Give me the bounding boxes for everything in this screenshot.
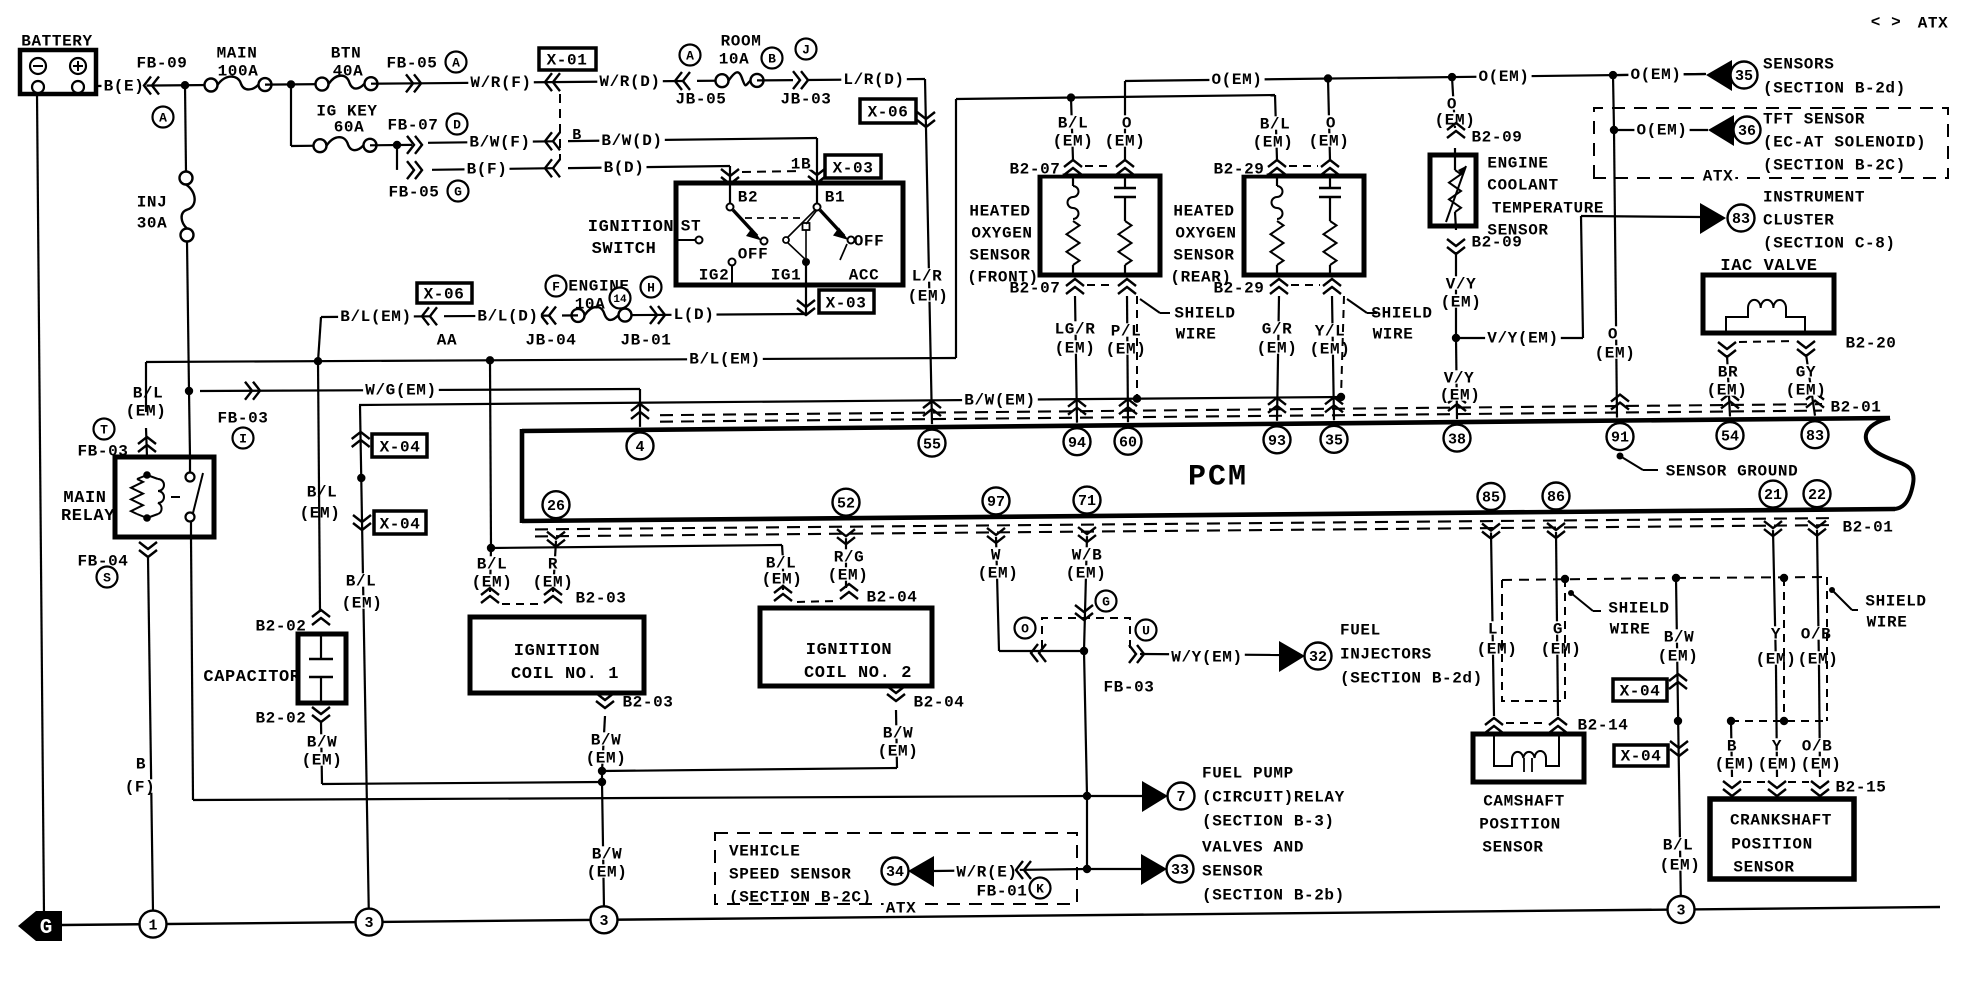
- svg-text:B/L: B/L: [307, 484, 338, 502]
- svg-text:86: 86: [1547, 489, 1565, 506]
- svg-text:ATX: ATX: [1918, 15, 1949, 33]
- ground bus wire: [62, 907, 1940, 925]
- heated oxygen sensor front box: [1040, 176, 1160, 275]
- svg-text:B/W: B/W: [591, 732, 622, 750]
- wire B/L(EM) down to B/L row: [318, 317, 321, 361]
- svg-text:X-03: X-03: [826, 295, 867, 313]
- svg-text:(SECTION B-2d): (SECTION B-2d): [1340, 670, 1483, 688]
- connector B2-07 upper: [1064, 168, 1082, 175]
- svg-text:RELAY: RELAY: [61, 507, 115, 526]
- svg-text:B2-04: B2-04: [866, 589, 917, 607]
- wire R from pin 26: [553, 541, 556, 592]
- wire B drop: [1731, 721, 1732, 777]
- svg-text:HEATED: HEATED: [1173, 203, 1234, 221]
- capacitor plates: [320, 634, 322, 659]
- PCM top dashed shield bus: [660, 411, 1822, 422]
- svg-text:B2-29: B2-29: [1213, 161, 1264, 179]
- connector X-04 upper: [352, 440, 370, 447]
- connector X-03 lower chevron: [797, 300, 815, 307]
- svg-text:54: 54: [1721, 429, 1739, 446]
- node O bus to sensors: [1609, 71, 1617, 79]
- wire IG1 down out of switch: [805, 262, 807, 314]
- wire V/Y down to pin 38: [1456, 338, 1457, 419]
- svg-text:B/L: B/L: [477, 556, 508, 574]
- wire to IG KEY fuse: [291, 145, 320, 148]
- wire coil2 B/L stub down: [782, 545, 783, 560]
- svg-text:4: 4: [635, 439, 644, 456]
- svg-text:40A: 40A: [333, 63, 364, 81]
- ignition switch box: [676, 183, 903, 285]
- svg-text:FUEL: FUEL: [1340, 622, 1381, 640]
- svg-text:(EM): (EM): [1257, 340, 1298, 358]
- svg-text:U: U: [1142, 624, 1150, 639]
- svg-text:SPEED SENSOR: SPEED SENSOR: [729, 866, 851, 884]
- svg-text:SENSOR: SENSOR: [1202, 863, 1263, 881]
- svg-text:IG1: IG1: [771, 267, 802, 285]
- connector JB-03 chevron: [793, 71, 800, 89]
- PCM pin 94: [1068, 408, 1086, 415]
- PCM pin 26: [543, 491, 570, 518]
- PCM pin 4: [631, 412, 649, 419]
- svg-text:CRANKSHAFT: CRANKSHAFT: [1730, 812, 1832, 830]
- sensor ground pointer: [1617, 453, 1624, 460]
- svg-text:3: 3: [364, 915, 373, 932]
- wire rear O drop: [1328, 79, 1330, 161]
- svg-text:SENSOR: SENSOR: [1482, 839, 1543, 857]
- svg-text:B(F): B(F): [467, 161, 508, 179]
- PCM top bus: [522, 418, 1890, 431]
- svg-text:FB-01: FB-01: [976, 883, 1027, 901]
- svg-text:B2: B2: [738, 189, 758, 207]
- connector B2-07 lower: [1066, 287, 1084, 294]
- svg-text:OXYGEN: OXYGEN: [1175, 225, 1236, 243]
- wire B/L riser to O2 feed line: [955, 99, 957, 358]
- node valves junction: [1083, 865, 1091, 873]
- svg-text:O: O: [1021, 622, 1029, 637]
- crankshaft shield pointer: [1829, 587, 1835, 593]
- svg-text:INSTRUMENT: INSTRUMENT: [1763, 189, 1865, 207]
- ignition switch terminal ST: [676, 239, 695, 241]
- svg-text:OFF: OFF: [854, 233, 885, 251]
- connector G chevron on W/B: [1075, 605, 1093, 612]
- connector B2-09 upper: [1447, 131, 1465, 138]
- label B(E): [102, 78, 147, 91]
- node A junction: [181, 81, 189, 89]
- svg-text:(EM): (EM): [1055, 340, 1096, 358]
- wire capacitor B/W down then right: [321, 722, 322, 784]
- svg-text:POSITION: POSITION: [1731, 836, 1813, 854]
- vehicle speed sensor dashed box: [715, 833, 1077, 904]
- svg-text:FB-03: FB-03: [1103, 679, 1154, 697]
- fuel injector dashed bracket: [1042, 618, 1130, 648]
- wire to BTN fuse: [265, 83, 322, 86]
- PCM pin 60: [1119, 407, 1137, 414]
- connector X-06 on L/R: [860, 99, 916, 123]
- wire O down to TFT row: [1613, 75, 1614, 130]
- connector B2-20: [1718, 342, 1736, 349]
- svg-text:60: 60: [1119, 434, 1137, 451]
- svg-text:26: 26: [547, 498, 565, 515]
- wire engine fuse to JB-04: [562, 314, 578, 316]
- svg-text:B/W: B/W: [307, 734, 338, 752]
- connector B2-03 upper: [481, 596, 499, 603]
- svg-text:G/R: G/R: [1262, 321, 1293, 339]
- svg-text:G: G: [1553, 621, 1563, 639]
- svg-text:O(EM): O(EM): [1211, 71, 1262, 89]
- svg-text:(REAR): (REAR): [1170, 269, 1231, 287]
- svg-text:83: 83: [1732, 211, 1750, 228]
- wire corner down to PCM pin 4: [639, 389, 641, 427]
- svg-text:POSITION: POSITION: [1479, 816, 1561, 834]
- svg-text:(EM): (EM): [878, 743, 919, 761]
- arrow fuel injectors 32: [1279, 641, 1305, 672]
- svg-text:L(D): L(D): [674, 306, 715, 324]
- svg-text:FB-07: FB-07: [387, 117, 438, 135]
- wire O(EM) to sensors arrow: [1613, 74, 1706, 75]
- connector B2-03 lower: [596, 693, 614, 700]
- svg-text:(EC-AT SOLENOID): (EC-AT SOLENOID): [1763, 134, 1926, 152]
- wire P/L to pin 60: [1127, 296, 1128, 422]
- svg-text:(EM): (EM): [1758, 756, 1799, 774]
- PCM pin 52: [833, 489, 860, 516]
- connector FB-03 T chevron: [94, 419, 115, 440]
- PCM bottom bus: [522, 509, 1895, 521]
- ignition switch contact arm B2-OFF: [733, 210, 757, 236]
- ignition coil no.1 box: [470, 617, 644, 693]
- svg-text:FB-09: FB-09: [136, 55, 187, 73]
- svg-text:(EM): (EM): [1253, 134, 1294, 152]
- wire coil1 B/W down: [602, 716, 605, 771]
- svg-text:B2-03: B2-03: [575, 590, 626, 608]
- svg-text:D: D: [453, 118, 461, 133]
- wire B/L feed line: [956, 95, 1275, 99]
- connector B2-09 lower: [1447, 239, 1465, 246]
- svg-text:ENGINE: ENGINE: [1487, 155, 1548, 173]
- svg-text:JB-03: JB-03: [780, 91, 831, 109]
- svg-text:W/R(E): W/R(E): [956, 864, 1017, 882]
- svg-text:OXYGEN: OXYGEN: [971, 225, 1032, 243]
- svg-text:BR: BR: [1718, 364, 1738, 382]
- fuse ROOM 10A: [697, 80, 722, 82]
- wire W/G(EM) row to pin4 corner: [200, 389, 640, 391]
- svg-text:IGNITION: IGNITION: [514, 642, 600, 661]
- svg-text:10A: 10A: [719, 51, 750, 69]
- node rear O tap: [1324, 74, 1332, 82]
- svg-text:B: B: [768, 52, 776, 67]
- svg-text:94: 94: [1068, 435, 1086, 452]
- wire O bus stub down to B/L feed line: [1124, 81, 1126, 97]
- wire B/W shield drain down: [1676, 578, 1681, 909]
- svg-text:MAIN: MAIN: [63, 489, 106, 508]
- svg-text:ATX: ATX: [886, 900, 917, 918]
- PCM pin 71: [1074, 487, 1101, 514]
- svg-text:O/B: O/B: [1802, 738, 1833, 756]
- camshaft shield dashed box: [1502, 598, 1561, 701]
- svg-text:32: 32: [1309, 649, 1327, 666]
- svg-text:WIRE: WIRE: [1867, 614, 1908, 632]
- svg-text:W/R(F): W/R(F): [470, 74, 531, 92]
- svg-text:A: A: [159, 111, 167, 126]
- camshaft pickup coil: [1494, 734, 1559, 766]
- wire V/Y down to junction: [1455, 252, 1457, 338]
- wire capacitor column from B/L node: [318, 361, 320, 612]
- PCM pin 97: [983, 487, 1010, 514]
- ground node 3 (coil B/W): [591, 906, 618, 933]
- svg-text:(EM): (EM): [978, 565, 1019, 583]
- svg-text:PCM: PCM: [1188, 460, 1248, 494]
- wire BR to pin 54: [1727, 355, 1730, 417]
- svg-text:X-03: X-03: [833, 160, 874, 178]
- svg-text:B/W(F): B/W(F): [469, 133, 530, 151]
- wire junction down to IG KEY row: [290, 84, 292, 146]
- label W/R(D): [597, 74, 663, 87]
- svg-text:R/G: R/G: [834, 549, 865, 567]
- svg-text:(EM): (EM): [908, 288, 949, 306]
- svg-text:SENSOR GROUND: SENSOR GROUND: [1666, 463, 1799, 481]
- node W/B junction: [1080, 647, 1088, 655]
- svg-text:O(EM): O(EM): [1478, 68, 1529, 86]
- wire GY to pin 83: [1806, 354, 1815, 416]
- PCM pin 85: [1478, 483, 1505, 510]
- connector FB-05 G chevron: [407, 161, 414, 179]
- svg-text:VEHICLE: VEHICLE: [729, 843, 800, 861]
- svg-text:B/W(D): B/W(D): [601, 132, 662, 150]
- svg-text:B/L: B/L: [1260, 116, 1291, 134]
- svg-text:(EM): (EM): [1441, 294, 1482, 312]
- PCM pin 21: [1760, 481, 1787, 508]
- svg-text:(CIRCUIT)RELAY: (CIRCUIT)RELAY: [1202, 789, 1345, 807]
- svg-text:JB-05: JB-05: [675, 91, 726, 109]
- svg-text:(EM): (EM): [1798, 651, 1839, 669]
- wire O(EM) to TFT arrow: [1614, 129, 1708, 131]
- wire rear B/L corner drop: [1275, 95, 1277, 160]
- svg-text:(EM): (EM): [1707, 382, 1748, 400]
- wire W/R(F) to X-01 to W/R(D): [420, 81, 683, 83]
- connector X-01 B chevron: [553, 159, 560, 177]
- main relay switch: [189, 457, 191, 473]
- svg-text:(EM): (EM): [828, 567, 869, 585]
- svg-text:X-06: X-06: [424, 286, 465, 304]
- svg-text:14: 14: [613, 294, 627, 306]
- PCM pin 86: [1543, 483, 1570, 510]
- svg-text:B2-15: B2-15: [1835, 779, 1886, 797]
- svg-text:10A: 10A: [575, 296, 606, 314]
- wire O/B from pin 22: [1817, 530, 1819, 668]
- svg-text:B2-20: B2-20: [1845, 335, 1896, 353]
- svg-text:SENSOR: SENSOR: [1173, 247, 1234, 265]
- svg-text:INJECTORS: INJECTORS: [1340, 646, 1432, 664]
- PCM pin 93: [1268, 406, 1286, 413]
- connector X-01: [539, 48, 596, 70]
- svg-text:L: L: [1488, 621, 1498, 639]
- wire INJ fuse down to W/G node: [187, 241, 189, 391]
- svg-text:T: T: [100, 423, 108, 438]
- ground symbol G: [18, 911, 62, 941]
- fuse INJ 30A: [180, 172, 193, 185]
- svg-text:Y: Y: [1771, 626, 1781, 644]
- svg-text:J: J: [802, 43, 810, 58]
- battery B: [20, 33, 96, 95]
- svg-text:COOLANT: COOLANT: [1487, 177, 1558, 195]
- wire BTN fuse to FB-05: [371, 82, 420, 85]
- svg-text:(EM): (EM): [1715, 756, 1756, 774]
- node coil B/W junction: [598, 767, 606, 775]
- svg-text:100A: 100A: [218, 63, 259, 81]
- svg-text:(EM): (EM): [1066, 565, 1107, 583]
- arrow sensors 35: [1706, 60, 1732, 91]
- svg-text:(EM): (EM): [342, 595, 383, 613]
- ECT thermistor: [1454, 148, 1456, 170]
- svg-text:B/L(EM): B/L(EM): [340, 308, 411, 326]
- svg-text:V/Y: V/Y: [1444, 370, 1475, 388]
- wire down to valves node: [1086, 796, 1088, 869]
- svg-text:JB-01: JB-01: [620, 332, 671, 350]
- svg-text:B2-09: B2-09: [1471, 129, 1522, 147]
- svg-text:Y: Y: [1772, 738, 1782, 756]
- svg-text:V/Y: V/Y: [1446, 276, 1477, 294]
- svg-text:85: 85: [1482, 490, 1500, 507]
- svg-text:(FRONT): (FRONT): [967, 269, 1038, 287]
- wire coil B/L feed row: [491, 545, 782, 548]
- connector X-04 lower right: [1670, 741, 1688, 748]
- svg-text:B2-01: B2-01: [1830, 399, 1881, 417]
- svg-text:S: S: [103, 571, 111, 586]
- svg-text:35: 35: [1325, 433, 1343, 450]
- svg-text:X-04: X-04: [1621, 748, 1662, 766]
- svg-text:B/W: B/W: [592, 846, 623, 864]
- wire ROOM fuse to JB-03: [757, 79, 793, 82]
- PCM right S-curve: [1866, 418, 1914, 509]
- svg-text:FUEL PUMP: FUEL PUMP: [1202, 765, 1294, 783]
- svg-text:BTN: BTN: [331, 45, 362, 63]
- svg-text:B/L: B/L: [346, 573, 377, 591]
- crankshaft position sensor box: [1710, 799, 1854, 879]
- connector FB-07 D chevron: [407, 136, 414, 154]
- connector B2-02 lower: [312, 707, 330, 714]
- svg-text:SHIELD: SHIELD: [1371, 305, 1432, 323]
- svg-text:1: 1: [148, 917, 157, 934]
- crank lower labels: [1713, 756, 1758, 769]
- svg-text:FB-03: FB-03: [217, 410, 268, 428]
- svg-text:AA: AA: [437, 332, 457, 350]
- PCM pin 22: [1804, 480, 1831, 507]
- svg-text:B(D): B(D): [604, 159, 645, 177]
- svg-text:X-01: X-01: [547, 52, 588, 70]
- svg-text:CLUSTER: CLUSTER: [1763, 212, 1834, 230]
- node O bus ECT tap: [1448, 73, 1456, 81]
- svg-text:A: A: [686, 49, 694, 64]
- svg-text:(EM): (EM): [1786, 382, 1827, 400]
- svg-text:(EM): (EM): [1595, 345, 1636, 363]
- svg-text:(EM): (EM): [1105, 133, 1146, 151]
- node X-04 column: [357, 474, 365, 482]
- svg-text:I: I: [239, 432, 247, 447]
- svg-text:COIL NO. 2: COIL NO. 2: [804, 664, 912, 683]
- svg-text:1B: 1B: [791, 156, 811, 174]
- wire B/L(EM) main row: [146, 358, 956, 362]
- svg-text:IGNITION: IGNITION: [806, 641, 892, 660]
- svg-text:WIRE: WIRE: [1373, 326, 1414, 344]
- wire O(EM) bus: [1125, 74, 1705, 81]
- ignition switch terminal IG1: [802, 258, 810, 266]
- connector X-06 box upper-left: [417, 283, 472, 303]
- svg-text:IG2: IG2: [699, 267, 730, 285]
- svg-text:G: G: [454, 185, 462, 200]
- node TFT tap: [1610, 126, 1618, 134]
- svg-text:(EM): (EM): [586, 750, 627, 768]
- connector B2-29 upper: [1268, 168, 1286, 175]
- svg-text:F: F: [552, 280, 560, 295]
- svg-text:60A: 60A: [334, 119, 365, 137]
- svg-text:WIRE: WIRE: [1610, 621, 1651, 639]
- svg-text:SENSOR: SENSOR: [1733, 859, 1794, 877]
- svg-text:FB-05: FB-05: [386, 55, 437, 73]
- camshaft position sensor box: [1473, 734, 1584, 782]
- svg-text:CAPACITOR: CAPACITOR: [203, 668, 300, 687]
- ignition switch terminal B1: [814, 204, 821, 211]
- svg-text:B/L: B/L: [1663, 837, 1694, 855]
- svg-text:22: 22: [1808, 487, 1826, 504]
- X-01 dashed link: [559, 94, 561, 160]
- wire Y/L to pin 35: [1332, 296, 1334, 420]
- wire front O drop: [1124, 97, 1126, 160]
- svg-text:(SECTION B-3): (SECTION B-3): [1202, 813, 1335, 831]
- connector X-03 box: [825, 155, 881, 178]
- svg-text:SHIELD: SHIELD: [1865, 593, 1926, 611]
- connector B2-29 lower: [1270, 287, 1288, 294]
- svg-text:H: H: [647, 281, 655, 296]
- svg-text:SHIELD: SHIELD: [1608, 600, 1669, 618]
- svg-text:B(E): B(E): [104, 77, 145, 95]
- wire coils B/W down to capacitor row: [601, 771, 603, 782]
- svg-text:W/R(D): W/R(D): [599, 73, 660, 91]
- svg-text:< >: < >: [1871, 14, 1902, 32]
- dashed link to B1 connector: [742, 171, 800, 172]
- svg-text:SENSOR: SENSOR: [969, 247, 1030, 265]
- PCM pin 35: [1325, 405, 1343, 412]
- svg-text:55: 55: [923, 436, 941, 453]
- node front B/L tap: [1067, 93, 1075, 101]
- ground node 3 (X-04 column): [356, 909, 383, 936]
- svg-text:GY: GY: [1796, 364, 1816, 382]
- svg-text:B2-09: B2-09: [1471, 234, 1522, 252]
- wire B/W down to ground 3: [602, 782, 604, 909]
- svg-text:(EM): (EM): [1756, 651, 1797, 669]
- PCM pin 83: [1806, 401, 1824, 408]
- svg-text:B: B: [1727, 738, 1737, 756]
- svg-text:35: 35: [1735, 68, 1753, 85]
- wire B/W(F) row to X-01: [428, 141, 553, 143]
- wire R/G from pin 52: [845, 538, 847, 588]
- ignition switch dashed detent: [745, 217, 800, 219]
- wire W/B down to fuel pump node: [1084, 651, 1087, 796]
- svg-text:30A: 30A: [137, 215, 168, 233]
- camshaft shield pointer: [1568, 590, 1574, 596]
- wire B(E) from battery to junction A: [96, 85, 211, 86]
- heated oxygen sensor rear box: [1244, 176, 1364, 275]
- connector FB-09 chevron: [152, 77, 159, 95]
- svg-text:B2-02: B2-02: [255, 710, 306, 728]
- wire B(D) corner down into B2: [729, 166, 731, 203]
- wire B/L vertical to coils: [490, 360, 491, 548]
- svg-text:B2-01: B2-01: [1842, 519, 1893, 537]
- wire B/L into coil2: [782, 560, 784, 590]
- ground node 3 (shield drain): [1668, 896, 1695, 923]
- connector B2 entry chevron: [721, 169, 739, 176]
- engine coolant temperature sensor box: [1430, 155, 1476, 226]
- node FB-07 junction: [393, 141, 401, 149]
- svg-text:L/R: L/R: [912, 268, 943, 286]
